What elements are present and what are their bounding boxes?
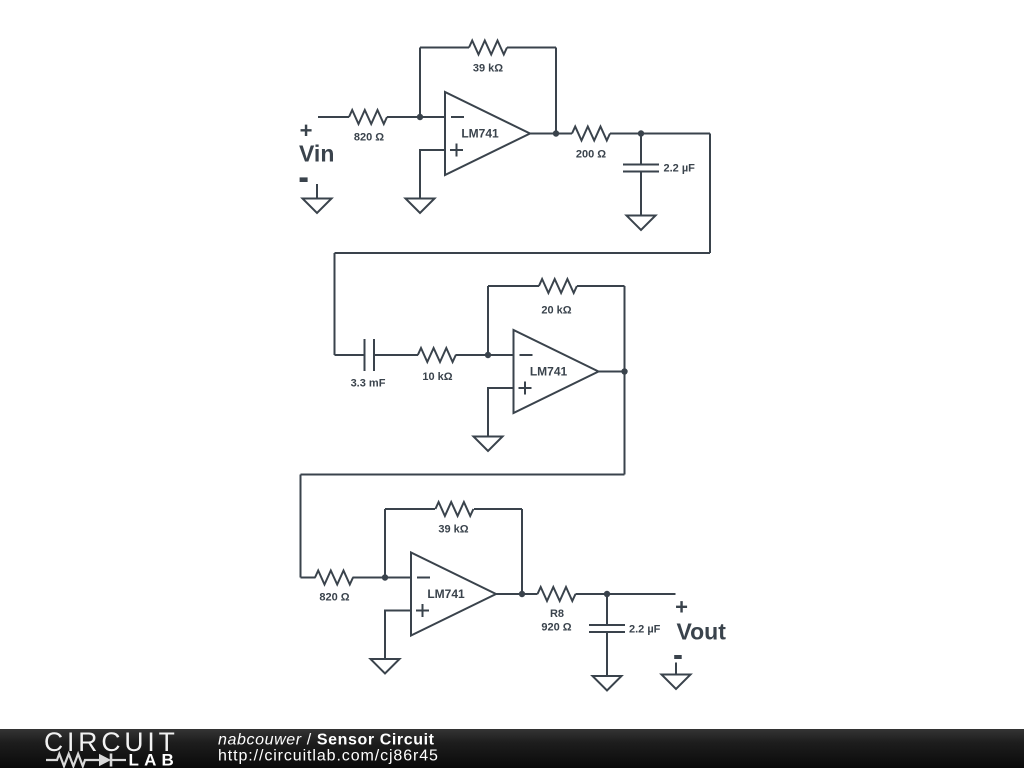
svg-text:LAB: LAB <box>129 751 180 768</box>
wire feedback3 right vertical <box>521 509 523 594</box>
wire R3 to C1 node <box>610 133 710 135</box>
wire Vin minus stub <box>316 184 318 199</box>
svg-text:3.3 mF: 3.3 mF <box>351 378 386 390</box>
svg-text:39 kΩ: 39 kΩ <box>438 524 468 536</box>
wire U3 non-inverting input to ground <box>385 611 411 660</box>
resistor R8 920 Ohm <box>538 587 576 601</box>
wire stage2 to stage3 right vertical <box>624 372 626 475</box>
wire Vout minus stub <box>675 663 677 675</box>
wire feedback2 right vertical <box>624 286 626 372</box>
wire R6 to U3 inverting input <box>353 577 412 579</box>
svg-text:http://circuitlab.com/cj86r45: http://circuitlab.com/cj86r45 <box>218 748 439 765</box>
op-amp U3 LM741 <box>411 553 496 636</box>
wire C2 to R4 <box>374 354 418 356</box>
op-amp U2 LM741 <box>514 330 599 413</box>
wire U2 non-inverting input to ground <box>488 388 514 437</box>
svg-text:39 kΩ: 39 kΩ <box>473 63 503 75</box>
resistor R2 39 kOhm <box>469 41 507 55</box>
footer bar <box>0 729 1024 768</box>
svg-text:LM741: LM741 <box>427 587 465 601</box>
node U3 output junction dot <box>519 591 525 597</box>
svg-text:+: + <box>675 595 688 620</box>
svg-text:Vin: Vin <box>299 141 334 167</box>
resistor R6 820 Ohm <box>315 571 353 585</box>
wire feedback1 left vertical <box>419 48 421 118</box>
svg-text:200 Ω: 200 Ω <box>576 149 606 161</box>
wire feedback1 right vertical <box>555 48 557 134</box>
wire stage1 to stage2 left vertical <box>334 253 336 355</box>
wire R4 to U2 inverting input <box>456 354 514 356</box>
wire U1 non-inverting input to ground <box>420 150 445 199</box>
op-amp U1 LM741 <box>445 92 530 175</box>
wire feedback3 top right <box>474 508 522 510</box>
wire to R6 <box>301 577 316 579</box>
ground C3 bottom <box>593 676 622 691</box>
ground C1 bottom <box>627 216 656 231</box>
CircuitLab logo resistor-diode squiggle <box>46 754 126 767</box>
svg-text:+: + <box>300 118 313 143</box>
node U2 inverting junction dot <box>485 352 491 358</box>
node U1 output junction dot <box>553 130 559 136</box>
wire feedback2 left vertical <box>487 286 489 355</box>
svg-text:820 Ω: 820 Ω <box>354 132 384 144</box>
svg-text:2.2 µF: 2.2 µF <box>629 624 661 636</box>
node N1 junction dot <box>417 114 423 120</box>
wire stage1 to stage2 right vertical <box>709 134 711 254</box>
wire feedback1 top right <box>507 47 556 49</box>
wire stage2 to stage3 left vertical <box>300 475 302 578</box>
capacitor C1 2.2 uF <box>623 134 659 216</box>
wire U2 output <box>599 371 625 373</box>
svg-text:R8: R8 <box>550 608 564 620</box>
wire feedback1 top left <box>420 47 469 49</box>
capacitor C2 3.3 mF <box>365 339 375 371</box>
wire feedback2 top left <box>488 285 539 287</box>
svg-text:nabcouwer / Sensor Circuit: nabcouwer / Sensor Circuit <box>218 732 435 749</box>
resistor R3 200 Ohm <box>572 127 610 141</box>
voltage source Vin minus label <box>300 177 308 182</box>
ground Vin negative terminal <box>303 199 332 214</box>
resistor R7 39 kOhm <box>435 502 473 516</box>
ground U2 non-inverting input <box>474 437 503 452</box>
resistor R1 820 Ohm <box>349 110 387 124</box>
wire feedback3 left vertical <box>384 509 386 578</box>
ground Vout negative terminal <box>662 675 691 690</box>
Vout minus label <box>674 655 682 659</box>
resistor R4 10 kOhm <box>418 348 456 362</box>
wire stage2 to stage3 horizontal <box>301 474 625 476</box>
wire feedback2 top right <box>577 285 625 287</box>
wire U3 output <box>496 593 538 595</box>
wire feedback3 top left <box>385 508 435 510</box>
ground U3 non-inverting input <box>371 659 400 674</box>
svg-text:820 Ω: 820 Ω <box>319 592 349 604</box>
svg-text:Vout: Vout <box>677 619 727 645</box>
svg-text:LM741: LM741 <box>530 365 568 379</box>
wire U1 output <box>530 133 572 135</box>
wire stage1 to stage2 horizontal <box>335 252 711 254</box>
node C3 top junction dot <box>604 591 610 597</box>
svg-text:LM741: LM741 <box>461 127 499 141</box>
wire R1 to U1 inverting input <box>387 116 445 118</box>
node U3 inverting junction dot <box>382 574 388 580</box>
wire Vin plus to R1 <box>318 116 349 118</box>
ground U1 non-inverting input <box>406 199 435 214</box>
wire to C2 <box>335 354 365 356</box>
wire R8 to C3 node and Vout <box>576 593 676 595</box>
capacitor C3 2.2 uF <box>589 594 625 676</box>
svg-text:10 kΩ: 10 kΩ <box>422 371 452 383</box>
svg-text:2.2 µF: 2.2 µF <box>664 163 696 175</box>
node U2 output junction dot <box>621 368 627 374</box>
svg-text:920 Ω: 920 Ω <box>541 622 571 634</box>
resistor R5 20 kOhm <box>539 279 577 293</box>
node C1 top junction dot <box>638 130 644 136</box>
svg-text:20 kΩ: 20 kΩ <box>541 305 571 317</box>
